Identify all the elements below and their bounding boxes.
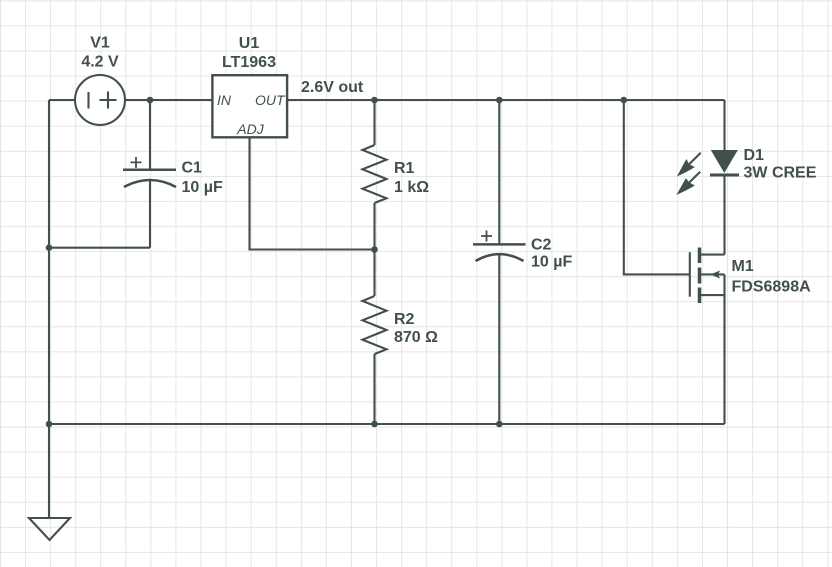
svg-text:R1: R1 xyxy=(394,160,415,177)
svg-text:D1: D1 xyxy=(744,147,765,164)
svg-text:C2: C2 xyxy=(531,237,552,254)
svg-text:10 µF: 10 µF xyxy=(531,254,572,271)
svg-text:2.6V out: 2.6V out xyxy=(301,79,364,96)
svg-text:FDS6898A: FDS6898A xyxy=(732,279,812,296)
svg-text:C1: C1 xyxy=(182,160,203,177)
svg-text:U1: U1 xyxy=(239,35,260,52)
svg-text:1 kΩ: 1 kΩ xyxy=(394,179,429,196)
svg-text:IN: IN xyxy=(217,92,232,108)
svg-text:M1: M1 xyxy=(732,258,754,275)
svg-text:LT1963: LT1963 xyxy=(222,54,276,71)
svg-text:OUT: OUT xyxy=(255,92,286,108)
svg-text:10 µF: 10 µF xyxy=(182,179,223,196)
svg-text:4.2 V: 4.2 V xyxy=(81,54,119,71)
svg-text:870 Ω: 870 Ω xyxy=(394,329,438,346)
svg-text:V1: V1 xyxy=(90,35,110,52)
svg-text:3W CREE: 3W CREE xyxy=(744,165,817,182)
svg-text:R2: R2 xyxy=(394,311,415,328)
svg-text:ADJ: ADJ xyxy=(236,121,264,137)
